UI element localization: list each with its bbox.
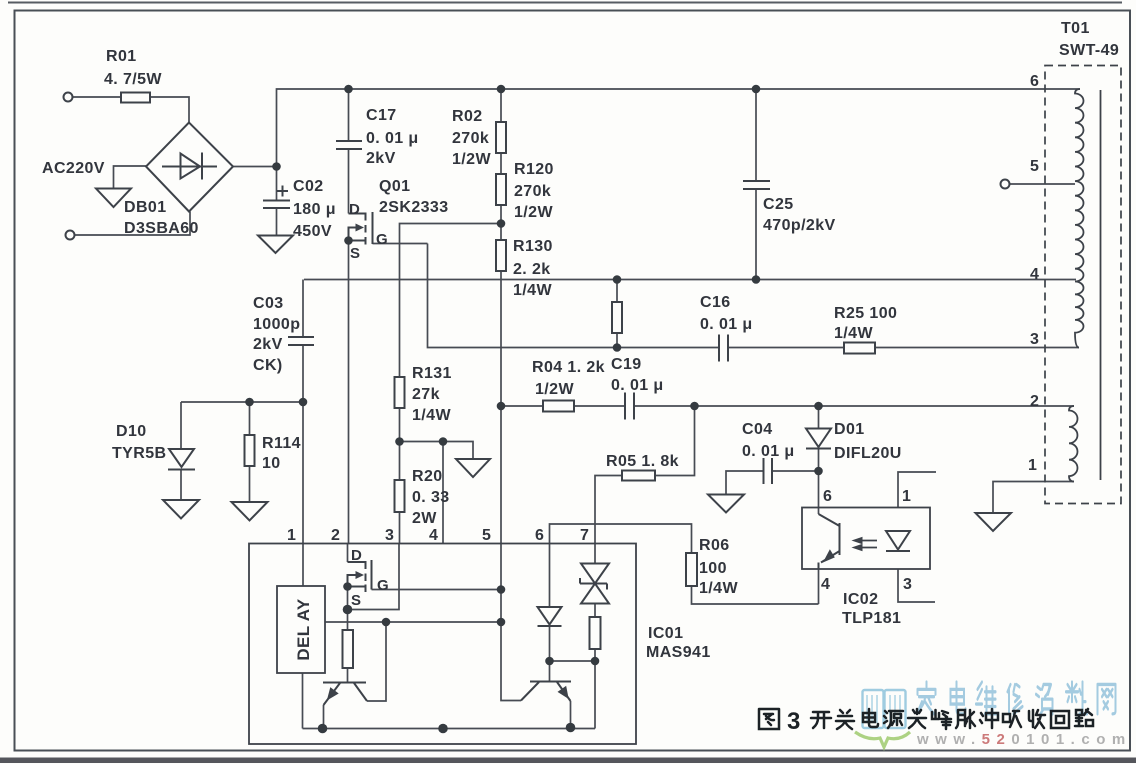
capacitor C03 1000p/2kV <box>288 337 314 345</box>
svg-text:0. 01 μ: 0. 01 μ <box>742 443 795 460</box>
svg-text:D10: D10 <box>116 423 147 440</box>
svg-text:C04: C04 <box>742 421 773 438</box>
node pin4 riser top <box>439 437 448 446</box>
wire node row R131/R20 to ground <box>400 442 474 460</box>
capacitor C19 0.01u <box>625 393 634 420</box>
svg-text:R120: R120 <box>514 161 554 178</box>
wire rail pin2 mid (R04 to C19) <box>574 405 625 407</box>
wire R02 chain verticals <box>500 89 502 544</box>
svg-text:2kV: 2kV <box>253 336 283 353</box>
svg-text:C25: C25 <box>763 196 794 213</box>
node diode / T2 base <box>545 657 554 666</box>
svg-text:1/4W: 1/4W <box>412 407 451 424</box>
svg-text:Q01: Q01 <box>379 178 410 195</box>
resistor R01 4.7/5W <box>121 93 150 103</box>
svg-text:CK): CK) <box>253 357 283 374</box>
svg-text:R01: R01 <box>106 48 137 65</box>
svg-text:R114: R114 <box>262 435 301 452</box>
diode internal (IC01 pin6) <box>538 607 562 626</box>
wire IC02 pin1 lead <box>898 472 936 508</box>
wire DELAY bottom to internal rail <box>302 673 304 729</box>
wire transformer pin5 tap <box>1010 183 1076 185</box>
ground (D10) <box>163 500 199 519</box>
node gate wire / pin5 line <box>497 585 506 594</box>
capacitor C04 0.01u <box>764 458 773 484</box>
svg-text:R04 1. 2k: R04 1. 2k <box>532 359 605 376</box>
svg-text:0. 01 μ: 0. 01 μ <box>700 316 753 333</box>
svg-text:180 μ: 180 μ <box>293 201 336 218</box>
IC02 TLP181 box <box>802 508 930 570</box>
LED (IC02) <box>886 531 910 551</box>
node R131/R20 <box>395 437 404 446</box>
phototransistor (IC02) <box>819 514 840 569</box>
resistor R20 0.33 2W <box>395 480 405 512</box>
wire Q01 gate to rail3 <box>373 243 428 245</box>
wire IC02 pin4 lead <box>818 563 820 604</box>
svg-text:6: 6 <box>535 527 544 544</box>
node zener resistor bottom <box>591 657 600 666</box>
wire top rail (bridge output to transformer pin 6) <box>277 89 1081 167</box>
resistor internal (IC01 pin7 chain) <box>590 617 601 649</box>
wire AC220V upper input <box>114 166 147 188</box>
svg-text:R130: R130 <box>513 238 553 255</box>
glyph hui <box>1051 711 1069 728</box>
glyph yuan <box>884 711 903 728</box>
wire R05 left lead down to IC01 pin7 <box>595 476 622 544</box>
svg-text:1: 1 <box>287 527 296 544</box>
svg-text:1: 1 <box>902 488 911 505</box>
glyph kai <box>811 712 831 728</box>
wire IC01 internal bottom rail <box>303 728 596 730</box>
wire zener chain leads <box>594 544 596 729</box>
watermark book icon <box>863 690 906 728</box>
wire rail pin4 <box>304 279 1076 281</box>
resistor R131 27k 1/4W <box>395 377 405 408</box>
svg-text:0. 33: 0. 33 <box>412 489 450 506</box>
svg-text:4: 4 <box>821 576 830 593</box>
wire IC01 pin3 internal corner <box>348 544 400 610</box>
wire D01 node to IC02 pin6 <box>818 471 820 514</box>
svg-text:3: 3 <box>903 576 912 593</box>
wire internal gate to pin5 line <box>372 589 502 591</box>
node rail2 / D01 <box>814 402 823 411</box>
svg-text:2. 2k: 2. 2k <box>513 261 551 278</box>
svg-text:MAS941: MAS941 <box>646 644 711 661</box>
node internal rail / T1 emitter <box>318 724 328 734</box>
wire D01 leads <box>818 406 820 471</box>
wire T2 base stem <box>549 661 551 682</box>
svg-text:D01: D01 <box>834 421 865 438</box>
glyph dian <box>863 709 878 727</box>
node rail4 / C25 <box>752 275 761 284</box>
ground (R114) <box>232 502 268 521</box>
IC01 MAS941 box <box>249 544 636 745</box>
wire bridge to C02 node <box>233 166 277 168</box>
svg-text:AC220V: AC220V <box>42 160 105 177</box>
svg-text:27k: 27k <box>412 386 440 403</box>
node internal source / pin3 <box>343 605 353 615</box>
transformer primary winding pins 6-5-4-3 <box>1075 89 1084 348</box>
caption figure title <box>759 709 1093 729</box>
svg-text:C03: C03 <box>253 295 284 312</box>
wire rail pin2 right (C19 to transformer) <box>634 405 1074 407</box>
resistor R02 270k 1/2W <box>496 122 506 153</box>
wire D10/R114 node <box>181 401 303 403</box>
wire C04 right lead <box>772 470 819 472</box>
diode D01 DIFL20U <box>806 429 831 449</box>
wire R06 bottom to IC02 pin4 <box>692 586 819 604</box>
svg-text:5: 5 <box>482 527 491 544</box>
resistor unlabeled (rail4-rail3) <box>612 302 622 333</box>
svg-text:270k: 270k <box>452 130 489 147</box>
svg-text:0. 01 μ: 0. 01 μ <box>366 130 419 147</box>
glyph mai <box>956 710 975 728</box>
glyph feng <box>932 710 951 729</box>
svg-text:4: 4 <box>1030 266 1039 283</box>
scan edge bottom <box>0 758 1136 764</box>
glyph chong <box>980 709 998 728</box>
svg-text:C17: C17 <box>366 107 397 124</box>
svg-text:DEL AY: DEL AY <box>294 598 313 661</box>
svg-text:R25 100: R25 100 <box>834 305 897 322</box>
wire IC01 pin5 line down to T2 collector <box>501 544 521 701</box>
wire rail pin3 right segment (R25 to transformer) <box>875 347 1079 349</box>
svg-text:T01: T01 <box>1061 20 1090 37</box>
node delay wire / T1 collector <box>382 618 391 627</box>
svg-text:1: 1 <box>1028 457 1037 474</box>
wire internal mosfet source chain <box>347 587 349 631</box>
resistor R05 1.8k <box>622 471 655 481</box>
svg-text:S: S <box>351 592 361 609</box>
ground (transformer pin1) <box>976 513 1012 531</box>
svg-text:3: 3 <box>1030 331 1039 348</box>
wire IC01 pin4 riser <box>442 442 444 544</box>
transformer core line <box>1100 90 1102 480</box>
wire C02 leads <box>276 167 278 236</box>
wire gate divider tap (junction to R131) <box>400 224 502 378</box>
svg-text:R131: R131 <box>412 365 452 382</box>
wire IC01 pin6 diode leads <box>549 544 551 662</box>
svg-text:R20: R20 <box>412 468 443 485</box>
svg-text:270k: 270k <box>514 183 551 200</box>
glyph xi <box>1003 711 1021 727</box>
svg-text:IC01: IC01 <box>648 625 683 642</box>
svg-text:3: 3 <box>787 708 800 735</box>
wire R114 leads <box>249 402 251 502</box>
wire rail pin3 mid segment (C16 to R25) <box>728 347 844 349</box>
svg-text:C02: C02 <box>293 178 324 195</box>
node rail3 / unlabeled resistor <box>613 343 622 352</box>
svg-text:7: 7 <box>580 527 589 544</box>
svg-text:DIFL20U: DIFL20U <box>834 445 902 462</box>
ground (C02) <box>258 236 293 254</box>
svg-text:R02: R02 <box>452 108 483 125</box>
transistor Q01 2SK2333 mosfet <box>349 212 373 245</box>
resistor R25 100 1/4W <box>844 343 875 354</box>
svg-text:2W: 2W <box>412 510 437 527</box>
node bridge output / C02 <box>272 162 281 171</box>
diode D10 TYR5B <box>168 449 195 470</box>
svg-text:G: G <box>377 577 389 594</box>
svg-text:D: D <box>351 547 362 564</box>
wire DELAY output to pin5 line <box>325 621 501 623</box>
svg-text:10: 10 <box>262 455 281 472</box>
svg-text:6: 6 <box>1030 73 1039 90</box>
svg-text:450V: 450V <box>293 223 332 240</box>
svg-text:1/2W: 1/2W <box>535 381 574 398</box>
svg-text:0. 01 μ: 0. 01 μ <box>611 377 664 394</box>
wire IC02 pin3 lead <box>898 569 935 602</box>
capacitor C02 180u/450V electrolytic <box>263 186 290 209</box>
transistor T2 (IC01) <box>521 682 571 702</box>
svg-text:6: 6 <box>823 488 832 505</box>
wire T1 collector riser <box>367 622 386 701</box>
svg-text:4: 4 <box>429 527 438 544</box>
svg-text:4. 7/5W: 4. 7/5W <box>104 71 162 88</box>
bridge rectifier DB01 D3SBA60 <box>146 123 233 212</box>
zener bidirectional (IC01 pin7) <box>580 564 609 604</box>
svg-text:470p/2kV: 470p/2kV <box>763 217 836 234</box>
wire IC01 pin2 to internal mosfet drain <box>347 544 349 563</box>
svg-text:2kV: 2kV <box>366 150 396 167</box>
wire C19/R05 right node riser <box>655 406 695 476</box>
wire IC01 pin1 to DELAY <box>302 544 304 587</box>
wire R01 input <box>73 97 190 123</box>
wire unlabeled resistor (rail4 to rail3) leads <box>616 280 618 348</box>
node C03 / D10 rail <box>299 398 308 407</box>
transformer secondary winding pins 2-1 <box>1069 406 1078 482</box>
ground (C04) <box>708 495 744 513</box>
node internal rail / pin4 <box>438 724 448 734</box>
wire transformer pin1 to ground <box>993 482 1074 514</box>
resistor R130 2.2k 1/4W <box>496 240 506 271</box>
watermark book green ribbon <box>855 732 910 747</box>
ground (AC220V input) <box>96 189 131 208</box>
terminal input upper <box>64 93 73 102</box>
terminal input lower <box>66 231 75 240</box>
resistor R04 1.2k 1/2W <box>543 401 574 412</box>
svg-text:R05 1. 8k: R05 1. 8k <box>606 453 679 470</box>
transformer T01 SWT-49 dashed box <box>1045 66 1121 504</box>
node Q01 source <box>344 236 353 245</box>
svg-text:G: G <box>376 231 388 248</box>
wire IC01 pin6 to R06 <box>550 524 692 553</box>
glyph lu <box>1075 709 1093 726</box>
svg-text:R06: R06 <box>699 537 730 554</box>
node R120/R130 gate tap <box>497 219 506 228</box>
svg-text:SWT-49: SWT-49 <box>1059 42 1119 59</box>
svg-text:IC02: IC02 <box>843 591 878 608</box>
terminal transformer pin5 <box>1001 180 1010 189</box>
svg-text:1/4W: 1/4W <box>513 282 552 299</box>
node rail2 / R05 <box>690 402 699 411</box>
scan edge top <box>8 2 1122 4</box>
svg-text:TYR5B: TYR5B <box>112 445 166 462</box>
svg-text:TLP181: TLP181 <box>842 610 901 627</box>
wire internal resistor to T1 base <box>347 668 349 683</box>
wire C25 leads <box>755 89 757 280</box>
wire Q01 source down to IC01 pin2 <box>348 241 350 544</box>
resistor R114 10 <box>245 435 255 466</box>
svg-text:5: 5 <box>1030 158 1039 175</box>
svg-text:1/4W: 1/4W <box>834 325 873 342</box>
svg-text:1/2W: 1/2W <box>514 204 553 221</box>
glyph guan <box>836 710 854 729</box>
svg-text:2SK2333: 2SK2333 <box>379 199 449 216</box>
ground (R131/R20 node) <box>456 459 490 477</box>
svg-text:D3SBA60: D3SBA60 <box>124 220 199 237</box>
wire C17 leads <box>348 89 350 214</box>
DELAY block <box>277 586 325 673</box>
svg-text:2: 2 <box>1030 393 1039 410</box>
svg-text:D: D <box>349 201 360 218</box>
wire AC220V lower input <box>75 212 191 236</box>
glyph shou <box>1029 710 1045 728</box>
node delay wire / pin5 line <box>497 618 506 627</box>
transistor T1 (IC01) <box>323 683 367 706</box>
svg-text:2: 2 <box>331 527 340 544</box>
wire D10 leads <box>180 402 182 500</box>
svg-text:DB01: DB01 <box>124 199 167 216</box>
svg-text:1/4W: 1/4W <box>699 580 738 597</box>
resistor R06 100 1/4W <box>686 553 697 586</box>
wire rail pin3 left segment (Q01 gate to C16) <box>428 244 720 348</box>
node rail4 / unlabeled resistor <box>613 275 622 284</box>
wire C04 left lead to ground <box>726 471 764 495</box>
resistor R120 270k 1/2W <box>496 174 506 205</box>
svg-text:100: 100 <box>699 560 727 577</box>
capacitor C17 0.01u/2kV <box>336 141 362 149</box>
glyph tu (figure) <box>759 709 779 729</box>
light arrows (IC02) <box>858 541 877 548</box>
IC01 internal resistor (T1 base) <box>343 630 354 668</box>
IC01 internal mosfet <box>348 560 372 592</box>
svg-text:www.520101.com: www.520101.com <box>916 731 1132 748</box>
svg-text:S: S <box>350 245 360 262</box>
wire R131 to R20 <box>399 408 401 480</box>
node rail2 / R130 line <box>497 402 506 411</box>
node internal mosfet source arrow <box>343 582 352 591</box>
node top rail / C25 <box>752 85 761 94</box>
svg-text:3: 3 <box>385 527 394 544</box>
node top rail / R02 <box>497 85 506 94</box>
wire rail pin2 left (node to R04) <box>501 405 543 407</box>
svg-text:1000p: 1000p <box>253 316 300 333</box>
wire T1 emitter drop <box>323 705 325 729</box>
svg-text:C16: C16 <box>700 294 731 311</box>
capacitor C25 470p/2kV <box>743 181 770 189</box>
node D01 / C04 / IC02 pin6 <box>814 467 823 476</box>
svg-text:C19: C19 <box>611 356 642 373</box>
node internal rail / T2 emitter <box>566 723 576 733</box>
wire internal diode node to zener node <box>550 660 596 662</box>
node R114 top <box>245 398 254 407</box>
watermark hanzi (approx strokes) <box>918 682 1116 714</box>
node top rail / C17 <box>344 85 353 94</box>
capacitor C16 0.01u <box>719 335 728 362</box>
wire C03 branch verticals <box>302 280 304 544</box>
svg-text:1/2W: 1/2W <box>452 151 491 168</box>
glyph jian <box>908 709 926 728</box>
wire T2 emitter drop <box>570 701 572 728</box>
wire R20 to IC01 pin3 <box>399 512 401 544</box>
